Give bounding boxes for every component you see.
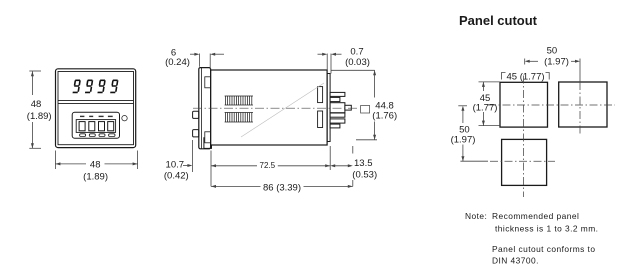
svg-text:(0.03): (0.03) [345,57,370,68]
svg-text:(0.42): (0.42) [164,171,189,182]
side bezel [193,68,212,149]
svg-text:72.5: 72.5 [260,161,276,170]
svg-text:86 (3.39): 86 (3.39) [263,182,301,193]
rear plate [327,74,330,142]
dimension 72.5 [211,146,330,186]
latch slot upper [318,87,323,103]
dimension 50 (1.97) top [525,59,580,83]
dimension 45 (1.77) bracket [502,73,550,80]
svg-text:(1.97): (1.97) [451,135,476,146]
svg-text:Recommended panel: Recommended panel [492,211,579,221]
svg-text:Panel cutout conforms to: Panel cutout conforms to [492,244,595,254]
cutout square top-right [559,82,607,127]
svg-text:(1.89): (1.89) [27,111,52,122]
dimension 50 (1.97) left [458,106,488,161]
cutout square bottom [502,139,547,185]
switch top label marks [80,116,113,117]
display band lower line [58,103,134,105]
svg-text:(1.76): (1.76) [372,111,397,122]
svg-text:(1.89): (1.89) [83,171,108,182]
svg-text:50: 50 [547,45,558,56]
dimension 86 (3.39) [211,185,353,187]
dimension 48 vertical (front) [29,71,41,148]
centerlines [488,76,615,198]
mount tab lower [193,130,199,137]
pin cross-section square [361,106,370,114]
front bezel outline [56,69,136,148]
dimension 48 horizontal (front) [55,151,137,170]
dimension 10.7 (0.42) [183,140,192,172]
latch slot lower [318,111,323,128]
svg-text:48: 48 [31,99,42,110]
dimension 44.8 (1.76) [331,70,377,140]
svg-text:Note:: Note: [465,211,487,221]
svg-text:thickness is 1 to 3.2 mm.: thickness is 1 to 3.2 mm. [495,223,598,233]
svg-text:45 (1.77): 45 (1.77) [507,71,545,82]
mount tab upper [193,111,199,118]
svg-text:(0.53): (0.53) [352,169,377,180]
svg-text:13.5: 13.5 [354,158,373,169]
case diagonal mark [241,83,324,137]
digital display 9999 [73,80,119,94]
svg-text:(0.24): (0.24) [165,57,190,68]
dimension 45 (1.77) left [479,82,501,126]
centerline [193,107,358,109]
ventilation louvres [225,96,253,122]
thumbwheel switch block [72,112,127,138]
cutout square top-left [500,82,548,127]
dimension 6 (0.24) [190,54,224,70]
display window bottom line [58,100,134,102]
svg-text:0.7: 0.7 [350,47,363,58]
side body [211,70,331,145]
socket pins [330,92,351,128]
bezel notch top [205,77,211,88]
lower buttons [80,134,86,137]
reset key hole [122,116,127,121]
svg-text:Panel cutout: Panel cutout [459,13,538,28]
switch inner frame [76,120,115,133]
dimension 0.7 (0.03) [318,54,342,74]
svg-text:48: 48 [90,159,101,170]
bezel notch bottom [205,132,211,143]
svg-text:DIN 43700.: DIN 43700. [492,256,539,266]
svg-text:(1.97): (1.97) [544,57,569,68]
svg-text:(1.77): (1.77) [473,103,498,114]
digit windows [79,122,85,131]
dimension 13.5 (0.53) [332,146,353,186]
bottom hook [204,137,212,148]
front inner frame [58,72,134,145]
svg-text:10.7: 10.7 [166,160,185,171]
